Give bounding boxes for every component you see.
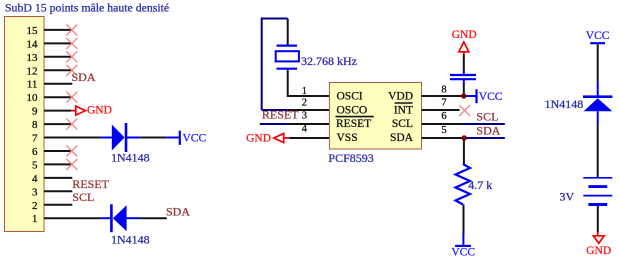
svg-text:OSCO: OSCO [337,104,368,116]
svg-text:VCC: VCC [479,91,503,103]
capacitor C1 [463,84,465,96]
svg-text:7: 7 [32,133,38,145]
svg-text:3: 3 [32,186,38,198]
wire battery to GND [597,206,599,232]
svg-text:VCC: VCC [183,132,207,144]
svg-text:4: 4 [32,173,38,185]
svg-text:VCC: VCC [586,30,610,42]
svg-text:SDA: SDA [166,204,190,218]
pin 15 no-connect X [66,24,77,35]
svg-text:14: 14 [27,38,39,50]
GND port (bottom right) [597,232,599,236]
svg-text:SDA: SDA [390,132,414,144]
svg-text:2: 2 [32,200,38,212]
pin 8 wire [44,123,72,125]
svg-text:2: 2 [302,97,307,108]
pin 10 wire [44,96,72,98]
svg-text:7: 7 [441,97,446,108]
diode D3 1N4148 (vertical, pointing up) [597,82,599,96]
wire resistor to VCC [463,205,465,234]
svg-text:9: 9 [32,106,38,118]
svg-text:GND: GND [452,29,477,41]
pin 6 no-connect X [66,146,77,157]
pin 12 no-connect X [66,65,77,76]
pin 14 wire [44,42,72,44]
wire crystal top vertical [287,19,289,47]
svg-text:6: 6 [441,111,446,122]
wire OSCO to U1 [288,109,330,111]
svg-text:11: 11 [27,79,38,91]
resistor R1 4.7k [456,164,471,205]
wire SDA to resistor [463,138,465,165]
connector J1 body [5,17,45,232]
svg-text:VDD: VDD [388,91,413,103]
pin 4 wire [44,177,72,179]
svg-text:4: 4 [302,123,308,134]
wire cap to GND [463,54,465,71]
svg-text:12: 12 [27,65,38,77]
svg-text:32.768 kHz: 32.768 kHz [301,54,357,68]
wire INT (pin 7) [422,109,460,111]
pin 8 no-connect X [66,119,77,130]
pin 11 wire [44,83,72,85]
wire OSCO (navy segment) [262,109,288,111]
VCC port (pin 8 net) [464,95,475,97]
svg-text:1N4148: 1N4148 [545,97,584,111]
junction node SDA [462,135,467,140]
pin 10 no-connect X [66,92,77,103]
pin 1 wire [44,217,100,219]
svg-text:5: 5 [441,125,446,136]
svg-text:13: 13 [27,52,39,64]
pin 12 wire [44,69,72,71]
wire SCL (pin 6) [422,123,462,125]
svg-text:1N4148: 1N4148 [111,151,150,165]
pin 14 no-connect X [66,38,77,49]
svg-text:1: 1 [302,86,307,97]
svg-text:4.7 k: 4.7 k [468,178,492,192]
svg-text:PCF8593: PCF8593 [328,151,373,165]
op IC U1 PCF8593 body [329,83,421,150]
wire SCL (navy segment) [462,123,505,125]
pin 13 wire [44,56,72,58]
wire crystal bottom to OSCI [288,70,330,96]
svg-text:SCL: SCL [72,190,94,204]
svg-text:VCC: VCC [451,246,475,258]
VCC port (pin 7 net) [166,137,179,139]
pin 6 wire [44,150,72,152]
svg-text:SubD 15 points mâle haute dens: SubD 15 points mâle haute densité [5,1,169,15]
svg-text:15: 15 [27,25,39,37]
diode D2 1N4148 (pin 1, pointing left) [100,217,111,219]
svg-text:GND: GND [586,245,611,257]
diode D1 1N4148 (pin 7, pointing right) [100,137,112,139]
pin 7 no-connect X [459,105,470,116]
svg-text:8: 8 [441,85,446,96]
wire VCC to diode D3 [597,44,599,82]
junction node VDD [461,93,466,98]
pin 13 no-connect X [66,51,77,62]
U1 pin name INT with overbar [395,102,413,104]
svg-text:RESET: RESET [72,177,109,191]
VCC port (below R1) [462,233,464,245]
GND port (pin 9) [71,110,76,112]
wire pin7 diode to VCC [140,137,166,139]
svg-text:RESET: RESET [336,118,371,130]
crystal Y1 32.768 kHz [277,44,298,46]
svg-text:VSS: VSS [337,132,358,144]
wire VSS to U1 [289,137,329,139]
svg-text:1N4148: 1N4148 [111,232,150,246]
pin 3 wire [44,190,72,192]
svg-text:SCL: SCL [476,109,498,123]
wire pin1 diode to SDA [140,217,167,219]
svg-text:6: 6 [32,146,38,158]
svg-text:5: 5 [32,159,38,171]
wire SDA (navy segment) [466,137,505,139]
wire crystal top loop (navy) [262,19,288,111]
svg-text:8: 8 [32,119,38,131]
wire RESET to U1 [288,123,330,125]
battery BT1 3V [583,177,612,179]
GND port (above C1) [463,52,465,55]
svg-text:GND: GND [246,133,271,145]
wire diode D3 to battery [597,125,599,177]
pin 15 wire [44,29,72,31]
svg-text:GND: GND [87,105,112,117]
pin 7 wire [44,137,100,139]
svg-text:3: 3 [302,111,307,122]
svg-text:INT: INT [394,104,413,116]
svg-text:10: 10 [27,92,39,104]
svg-text:3V: 3V [560,190,575,204]
wire RESET stub (navy) [260,123,288,125]
pin 5 no-connect X [66,159,77,170]
U1 pin name RESET with overbar [336,116,374,118]
svg-text:SDA: SDA [476,124,500,138]
svg-text:RESET: RESET [262,108,299,122]
svg-text:SDA: SDA [72,70,96,84]
pin 5 wire [44,163,72,165]
pin 9 wire [44,110,71,112]
svg-text:SCL: SCL [392,118,413,130]
svg-text:1: 1 [32,213,38,225]
svg-text:OSCI: OSCI [337,91,363,103]
wire VDD (pin 8) [422,95,467,97]
wire SDA (pin 5) [422,137,467,139]
pin 2 wire [44,204,72,206]
